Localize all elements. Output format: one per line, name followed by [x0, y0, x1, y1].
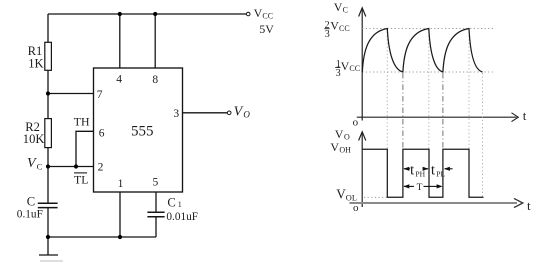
ground: [39, 237, 63, 261]
capacitor C1: [147, 212, 164, 217]
svg-text:3: 3: [173, 108, 179, 120]
wire pin1: [119, 192, 121, 237]
IC U1 555: [94, 68, 183, 192]
terminal Vcc: [246, 12, 250, 16]
vertical dashdot trough 2: [442, 73, 444, 149]
dimension tPH arrows: [403, 167, 428, 171]
gridline 2/3 Vcc dotted: [362, 28, 493, 30]
svg-text:0.01uF: 0.01uF: [166, 211, 198, 223]
node A junction: [46, 91, 50, 95]
wire bottom rail: [48, 236, 156, 238]
vertical dotted trough 3: [482, 73, 484, 197]
svg-text:OH: OH: [339, 146, 351, 155]
axis Y bottom plot: [359, 132, 366, 207]
vertical dotted peak 2: [428, 29, 430, 150]
svg-text:V: V: [254, 6, 263, 20]
svg-text:0.1uF: 0.1uF: [17, 209, 43, 221]
resistor R2: [45, 119, 52, 148]
svg-text:10K: 10K: [23, 132, 45, 146]
wire R1 to node A: [47, 70, 49, 118]
resistor R1: [45, 42, 52, 70]
wire TH pin6: [76, 131, 94, 166]
svg-text:C: C: [27, 195, 35, 209]
gridline 1/3 Vcc dotted: [362, 71, 493, 73]
svg-text:C: C: [37, 161, 43, 171]
svg-text:T: T: [417, 183, 423, 193]
label TL with overline: [74, 172, 87, 174]
node pin8 junction: [153, 12, 157, 16]
axis Y top plot: [359, 8, 366, 121]
svg-text:V: V: [330, 19, 339, 33]
svg-text:1: 1: [118, 178, 124, 190]
svg-text:V: V: [334, 0, 343, 14]
wire R2 to node Vc: [47, 148, 49, 203]
svg-text:o: o: [353, 117, 359, 129]
gridline VOL dotted: [364, 196, 388, 198]
curve Vo square wave: [362, 149, 483, 197]
svg-text:PL: PL: [436, 170, 445, 179]
wire node Vc to pin2: [48, 166, 94, 168]
svg-text:PH: PH: [415, 170, 425, 179]
node pin4 junction: [118, 12, 122, 16]
wire top rail Vcc: [48, 13, 246, 15]
dimension T arrows: [403, 184, 442, 188]
axis X bottom plot gray: [349, 202, 517, 204]
svg-text:5V: 5V: [259, 22, 274, 36]
node Vc junction: [46, 164, 50, 168]
wire pin8: [154, 14, 156, 68]
wire left rail R1 top: [47, 14, 49, 42]
svg-text:C: C: [343, 5, 348, 14]
svg-text:6: 6: [99, 127, 105, 139]
svg-text:8: 8: [152, 74, 158, 86]
node bottom-left junction: [46, 235, 50, 239]
curve Vc waveform: [362, 29, 482, 73]
svg-text:CC: CC: [339, 24, 350, 33]
svg-text:5: 5: [153, 177, 159, 189]
svg-text:1: 1: [178, 200, 182, 209]
svg-text:o: o: [353, 202, 359, 214]
wire pin3 output: [183, 112, 228, 114]
svg-text:1K: 1K: [28, 56, 43, 70]
svg-text:V: V: [330, 140, 339, 154]
vertical dashdot trough 1: [402, 73, 404, 149]
svg-text:TH: TH: [74, 114, 90, 128]
axis X top plot: [357, 113, 519, 122]
svg-text:O: O: [243, 110, 250, 120]
svg-text:V: V: [341, 59, 350, 73]
svg-text:CC: CC: [349, 64, 360, 73]
vertical dotted peak 3: [468, 29, 470, 150]
svg-text:V: V: [336, 187, 346, 202]
svg-text:O: O: [344, 132, 350, 141]
dimension tPL outside arrow: [444, 167, 453, 171]
arrow X bottom plot: [514, 198, 523, 207]
svg-text:C: C: [167, 196, 175, 210]
node pin1 junction: [118, 235, 122, 239]
wire node A to pin7: [48, 93, 94, 95]
svg-text:V: V: [234, 105, 244, 120]
svg-text:CC: CC: [262, 12, 273, 21]
svg-text:7: 7: [97, 89, 103, 101]
terminal Vo: [227, 111, 231, 115]
svg-text:555: 555: [131, 123, 154, 139]
wire C to bottom rail: [47, 208, 49, 237]
svg-text:t: t: [527, 198, 531, 213]
svg-text:t: t: [523, 108, 527, 123]
svg-text:TL: TL: [74, 173, 88, 187]
wire pin5 to C1: [155, 192, 157, 212]
svg-text:3: 3: [325, 29, 330, 40]
capacitor C: [38, 203, 58, 207]
svg-text:V: V: [27, 156, 37, 171]
wire C1 to bottom rail: [155, 217, 157, 237]
wire pin4: [119, 14, 121, 68]
node TH junction: [74, 164, 78, 168]
svg-text:4: 4: [116, 73, 122, 85]
vertical dotted peak 1: [386, 29, 388, 150]
svg-text:2: 2: [98, 162, 104, 174]
